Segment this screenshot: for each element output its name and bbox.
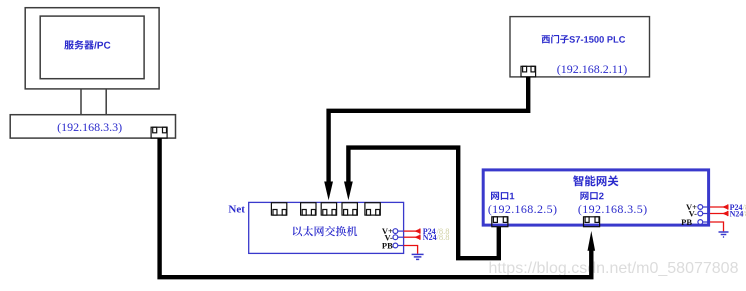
PLC box 西门子S7-1500 PLC xyxy=(510,17,650,77)
svg-text:PB: PB xyxy=(382,241,393,251)
svg-text:(192.168.3.3): (192.168.3.3) xyxy=(57,120,122,134)
PB wire to ground (switch) xyxy=(404,246,418,254)
switch port 4 xyxy=(342,203,357,215)
monitor outline (server/PC display) xyxy=(25,8,159,89)
switch port 5 xyxy=(365,203,380,215)
ground (switch) xyxy=(412,254,424,259)
gateway box 智能网关 xyxy=(483,170,708,225)
arrow into switch port4 xyxy=(344,182,353,201)
PB wire to ground (gateway) xyxy=(710,222,724,231)
switch port 3 xyxy=(321,203,336,215)
svg-text:(192.168.2.5): (192.168.2.5) xyxy=(488,202,558,216)
label 网口2 xyxy=(580,192,603,200)
ethernet port on PLC xyxy=(521,66,536,77)
gateway port 网口1 xyxy=(492,217,508,227)
svg-text:N24: N24 xyxy=(730,209,744,218)
svg-text:(192.168.2.11): (192.168.2.11) xyxy=(557,62,628,76)
power net label N24 (gateway) xyxy=(710,213,727,215)
wire gateway port1 to switch port4 xyxy=(348,148,498,259)
power net label P24 (switch) xyxy=(404,230,420,232)
label 智能网关 xyxy=(573,175,619,186)
power net label P24 (gateway) xyxy=(710,206,727,208)
monitor stand xyxy=(81,89,106,115)
svg-text:(192.168.3.5): (192.168.3.5) xyxy=(578,202,648,216)
label 以太网交换机 xyxy=(293,226,357,236)
label 西门子S7-1500 PLC xyxy=(542,35,626,44)
wire PLC port to switch port3 xyxy=(329,77,529,183)
PC base unit xyxy=(10,115,175,138)
svg-text:https://blog.csdn.net/m0_58077: https://blog.csdn.net/m0_58077808 xyxy=(489,260,739,277)
switch box xyxy=(249,202,404,253)
svg-text:/8.8: /8.8 xyxy=(437,232,450,242)
label 网口1 xyxy=(491,192,514,200)
power net label N24 (switch) xyxy=(404,236,420,238)
svg-text:PB: PB xyxy=(681,217,692,227)
arrow into gateway port2 xyxy=(588,231,596,251)
wire PC base to gateway port2 xyxy=(160,138,592,277)
ground (gateway) xyxy=(719,232,729,237)
svg-text:/8: /8 xyxy=(743,208,746,218)
arrow into switch port3 xyxy=(324,182,333,201)
switch port 1 xyxy=(271,203,286,215)
switch port 2 xyxy=(301,203,316,215)
ethernet port on PC base xyxy=(151,127,167,138)
label 服务器/PC xyxy=(64,40,110,49)
svg-text:N24: N24 xyxy=(423,233,437,242)
svg-text:Net: Net xyxy=(228,203,245,215)
gateway port 网口2 xyxy=(584,217,600,227)
